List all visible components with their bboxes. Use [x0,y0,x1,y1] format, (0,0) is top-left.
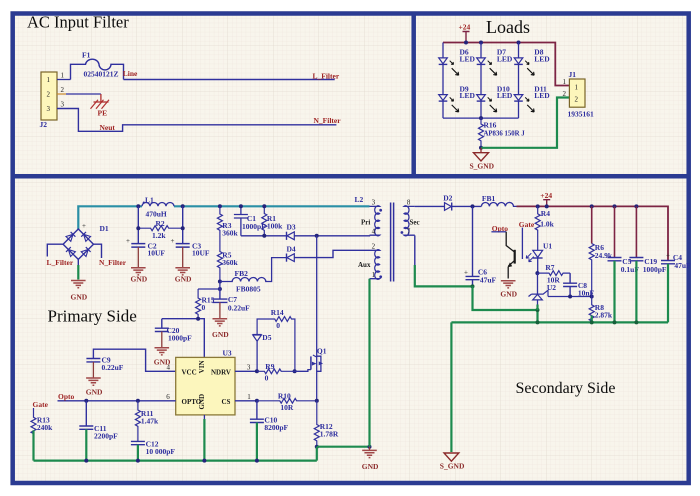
resistor R6 [589,206,613,296]
svg-text:1.47k: 1.47k [141,416,159,425]
connector J1 [563,70,595,119]
wire green bottom rail secondary [451,322,668,452]
svg-text:+: + [82,222,86,230]
wire VCC route to C9 [93,349,175,371]
svg-text:S_GND: S_GND [440,462,465,471]
svg-text:360k: 360k [222,258,238,267]
junction [471,284,475,288]
resistor R1 [262,206,283,236]
capacitor C10 [250,401,289,432]
junction [471,204,475,208]
LED D6 [439,48,476,76]
svg-text:PE: PE [98,109,108,118]
svg-text:470uH: 470uH [146,209,167,218]
junction [479,41,483,45]
power ground GND (primary return) [362,447,379,471]
capacitor C6 [464,206,497,286]
svg-text:NDRV: NDRV [211,369,231,377]
svg-text:02540121Z: 02540121Z [84,70,119,79]
svg-text:N_Filter: N_Filter [99,258,127,267]
wire D3 to drain node [294,235,366,237]
svg-text:3: 3 [61,101,65,109]
power ground GND (opto emitter) [500,281,517,299]
wire U2 ref rail [548,296,592,298]
junction [239,204,243,208]
power ground GND (C9) [86,362,103,397]
ferrite bead FB2 [220,258,287,294]
wire green Aux pin1 down [368,279,370,447]
wire Sec pin8 to D2 [415,205,445,207]
wire R15 tap [198,282,220,290]
power ground GND (bridge) [71,281,88,302]
svg-text:0.22uF: 0.22uF [102,363,124,372]
power ground GND (C20) [154,332,171,367]
capacitor C1 [234,206,266,236]
junction [218,204,222,208]
LED D10 [477,84,513,112]
svg-text:2: 2 [61,86,65,94]
wire gate of Q1 [295,370,311,372]
junction [218,280,222,284]
capacitor C4 [661,252,691,323]
junction [84,459,88,463]
svg-text:D1: D1 [100,224,109,233]
svg-text:+: + [171,237,175,245]
svg-text:GND: GND [175,275,192,284]
resistor R3 [217,206,238,238]
LED D7 [477,48,513,76]
resistor R15 [196,289,215,319]
svg-text:GND: GND [212,330,229,339]
capacitor C3 [171,237,210,258]
svg-text:+24: +24 [459,22,471,31]
svg-text:Gate: Gate [33,400,49,409]
svg-text:GND: GND [131,275,148,284]
junction [196,317,200,321]
svg-text:10 000pF: 10 000pF [146,447,176,456]
power ground GND (C7) [212,302,229,339]
svg-text:Q1: Q1 [317,346,327,355]
horizontal divider between top panels and bottom panel [11,174,691,179]
LED D11 [514,84,550,112]
svg-text:CS: CS [222,398,231,406]
junction [590,295,594,299]
junction [136,459,140,463]
LED D8 [514,48,550,76]
diode D5 [253,333,272,371]
power port +24 (loads) [459,22,471,42]
svg-text:D3: D3 [287,223,296,232]
fuse F1 [71,51,124,80]
wire LED branch 2 [480,43,482,119]
svg-text:LED: LED [534,54,550,63]
wire green below C11 [85,429,87,460]
svg-text:4: 4 [372,228,376,236]
capacitor C5 [608,206,640,322]
opto-isolator U1 LED [526,241,552,273]
svg-text:1: 1 [575,84,579,92]
svg-text:Line: Line [123,69,138,78]
svg-text:47uF: 47uF [674,261,691,270]
svg-text:S_GND: S_GND [470,161,495,170]
resistor R5 [217,238,238,282]
wire Pri pin4 row [366,235,370,237]
svg-text:N_Filter: N_Filter [314,116,342,125]
junction [590,204,594,208]
capacitor C9 [86,356,123,373]
resistor R14 [257,308,295,371]
svg-text:J2: J2 [40,120,48,129]
svg-text:8: 8 [407,199,411,207]
svg-text:3: 3 [247,363,251,371]
svg-text:GND: GND [71,293,88,302]
resistor R9 [257,362,295,383]
svg-text:R16: R16 [484,120,497,129]
svg-text:2.87k: 2.87k [595,310,613,319]
svg-text:Loads: Loads [486,17,530,37]
wire clamp rail [241,235,287,237]
capacitor C2 [126,237,165,258]
junction [613,320,617,324]
svg-text:1.78R: 1.78R [320,430,339,439]
junction [255,459,259,463]
transistor Q1 [311,236,327,401]
svg-text:100k: 100k [267,221,283,230]
svg-text:FB1: FB1 [482,194,496,203]
wire green below C10 [256,423,258,461]
svg-text:Opto: Opto [58,392,75,401]
svg-text:360k: 360k [222,229,238,238]
wire green below R13 [32,430,34,460]
svg-text:AC Input Filter: AC Input Filter [27,13,129,32]
junction [262,204,266,208]
junction [368,445,372,449]
svg-text:R4: R4 [541,209,550,218]
svg-text:R14: R14 [271,308,284,317]
svg-text:3: 3 [47,105,51,113]
junction [255,369,259,373]
ground S_GND (secondary) [440,453,465,471]
junction [218,287,222,291]
junction [479,116,483,120]
svg-text:Secondary Side: Secondary Side [516,380,616,397]
svg-text:J1: J1 [569,70,577,79]
svg-text:LED: LED [534,91,550,100]
junction [517,41,521,45]
wire C3 column [182,206,184,243]
svg-text:GND: GND [198,394,206,410]
capacitor C11 [79,401,118,441]
svg-text:1935161: 1935161 [568,110,595,119]
resistor R16 [479,118,526,148]
inductor L1 [142,195,174,218]
svg-text:U2: U2 [547,283,556,292]
svg-text:U1: U1 [543,241,552,250]
svg-text:3: 3 [372,199,376,207]
wire green R12 to GND and bus jog [34,447,370,461]
svg-text:Gate: Gate [519,220,535,229]
svg-text:8200pF: 8200pF [264,423,288,432]
connector J2 [40,72,58,129]
resistor R10 [257,391,317,412]
junction [136,399,140,403]
junction [634,320,638,324]
junction [479,146,483,150]
svg-text:1: 1 [47,76,51,84]
svg-text:+: + [126,237,130,245]
diode D3 [287,223,296,240]
resistor R12 [314,401,339,447]
wire C2 column [137,206,139,243]
opto-isolator U1 phototransistor [491,232,514,279]
svg-text:+: + [464,269,468,277]
svg-text:D5: D5 [262,333,271,342]
svg-text:U3: U3 [223,349,232,358]
resistor R8 [589,297,613,323]
svg-text:LED: LED [497,54,513,63]
svg-text:0.22uF: 0.22uF [228,303,250,312]
wire D4 to Aux pin 2 [294,250,369,257]
svg-text:2200pF: 2200pF [94,432,118,441]
resistor R2 [138,219,182,240]
junction [181,204,185,208]
wire Gate to U1 collector [521,228,523,259]
wire U3 GND pin 5 [203,415,205,461]
svg-text:LED: LED [460,91,476,100]
svg-text:240k: 240k [37,423,53,432]
svg-text:FB0805: FB0805 [236,284,261,293]
svg-text:10R: 10R [280,403,294,412]
svg-text:R10: R10 [278,391,291,400]
junction [181,226,185,230]
wire bridge to N_Filter [94,244,102,258]
svg-text:GND: GND [86,388,103,397]
svg-text:VIN: VIN [198,360,206,373]
svg-text:4: 4 [167,363,171,371]
junction [315,234,319,238]
svg-text:1: 1 [372,271,376,279]
capacitor C12 [131,439,175,456]
svg-text:LED: LED [460,54,476,63]
wire bottom rail of LED matrix [443,117,519,119]
svg-text:L_Filter: L_Filter [313,72,340,81]
junction [136,204,140,208]
wire green to J1 pin 2 [481,98,569,148]
svg-text:7: 7 [407,228,411,236]
capacitor C7 [212,289,250,312]
svg-text:1.2k: 1.2k [152,231,166,240]
svg-text:FB2: FB2 [235,269,249,278]
svg-text:1.0k: 1.0k [540,220,554,229]
svg-text:Primary Side: Primary Side [48,307,137,326]
junction [315,445,319,449]
junction [202,459,206,463]
svg-text:L_Filter: L_Filter [47,258,74,267]
junction [464,41,468,45]
junction [262,234,266,238]
wire +24 rail (maroon, secondary) [517,206,669,260]
junction [535,271,539,275]
transformer L2 [355,195,420,282]
junction [536,320,540,324]
resistor R11 [135,401,159,441]
svg-text:1: 1 [247,393,251,401]
shunt reference U2 [529,273,549,310]
earth ground PE [91,94,110,118]
junction [255,399,259,403]
svg-text:L2: L2 [355,195,364,204]
junction [634,204,638,208]
svg-text:10UF: 10UF [192,249,210,258]
IC U3 [166,349,251,415]
bridge rectifier D1 [63,222,109,259]
vertical divider between AC Input Filter and Loads panels [411,12,416,176]
pin 1 of J2 [57,72,71,80]
svg-text:+: + [666,252,670,260]
svg-text:+24: +24 [540,191,552,200]
LED D9 [439,84,476,112]
diode D2 [443,193,452,210]
junction [536,308,540,312]
wire Line to L_Filter [124,79,335,81]
svg-text:GND: GND [362,462,379,471]
junction [315,399,319,403]
ground S_GND (loads) [470,148,495,171]
junction [590,320,594,324]
wire VIN row [162,319,205,358]
pin 3 of J2 and wire Neut to N_Filter [57,101,336,132]
svg-text:0: 0 [202,303,206,312]
wire LED branch 1 [442,43,444,119]
power ground GND (C3) [175,247,192,283]
junction [613,204,617,208]
junction [568,295,572,299]
svg-text:R7: R7 [545,263,554,272]
junction [545,204,549,208]
svg-text:2: 2 [372,242,376,250]
wire teal DC bus [78,206,369,229]
capacitor C19 [629,206,666,322]
wire OPTO net [58,400,176,402]
power port +24 (secondary) [540,191,552,207]
svg-text:R2: R2 [156,219,165,228]
wire bridge bottom to ground [77,259,79,279]
svg-text:F1: F1 [82,51,91,60]
svg-text:AP836 150R J: AP836 150R J [484,131,526,138]
svg-text:Neut: Neut [100,123,116,132]
diode D4 [287,245,296,262]
capacitor C8 [563,273,594,298]
wire CS pin 1 [235,400,257,402]
svg-text:24.9k: 24.9k [595,251,613,260]
svg-text:VCC: VCC [182,369,197,377]
svg-text:1: 1 [61,72,65,80]
svg-text:Sec: Sec [410,218,420,226]
wire Sec pin7 down [415,235,473,286]
svg-text:1000pF: 1000pF [643,265,667,274]
wire green secondary return [473,286,538,322]
ferrite bead FB1 [481,194,516,206]
pin 2 of J2 [57,86,101,94]
svg-text:0: 0 [265,374,269,383]
resistor R4 [535,206,554,250]
wire green below C12 [137,445,139,461]
resistor R7 [538,263,571,292]
power ground GND (C2) [131,247,148,283]
wire D2 to FB1 node [452,205,482,207]
svg-text:6: 6 [166,393,170,401]
svg-text:2: 2 [563,90,567,98]
svg-text:2: 2 [575,96,579,104]
svg-text:D2: D2 [443,193,452,202]
svg-text:1000pF: 1000pF [168,334,192,343]
wire LED branch 3 [518,43,520,119]
svg-text:10UF: 10UF [148,249,166,258]
svg-text:Pri: Pri [361,218,370,226]
svg-text:L1: L1 [145,195,154,204]
junction [136,226,140,230]
wire +24 rail to J1 pin 1 (maroon) [443,43,569,86]
svg-text:D4: D4 [287,245,296,254]
capacitor C20 [155,319,192,343]
svg-text:0: 0 [276,321,280,330]
junction [293,369,297,373]
svg-text:47uF: 47uF [480,276,497,285]
wire bridge to L_Filter [47,244,63,256]
svg-text:GND: GND [500,289,517,298]
junction [536,204,540,208]
svg-text:LED: LED [497,91,513,100]
svg-text:Aux: Aux [358,261,371,269]
svg-text:R9: R9 [265,362,274,371]
wire NDRV pin 3 [235,370,257,372]
svg-text:1: 1 [563,78,567,86]
resistor R13 [31,408,53,434]
junction [84,399,88,403]
svg-text:2: 2 [47,91,51,99]
